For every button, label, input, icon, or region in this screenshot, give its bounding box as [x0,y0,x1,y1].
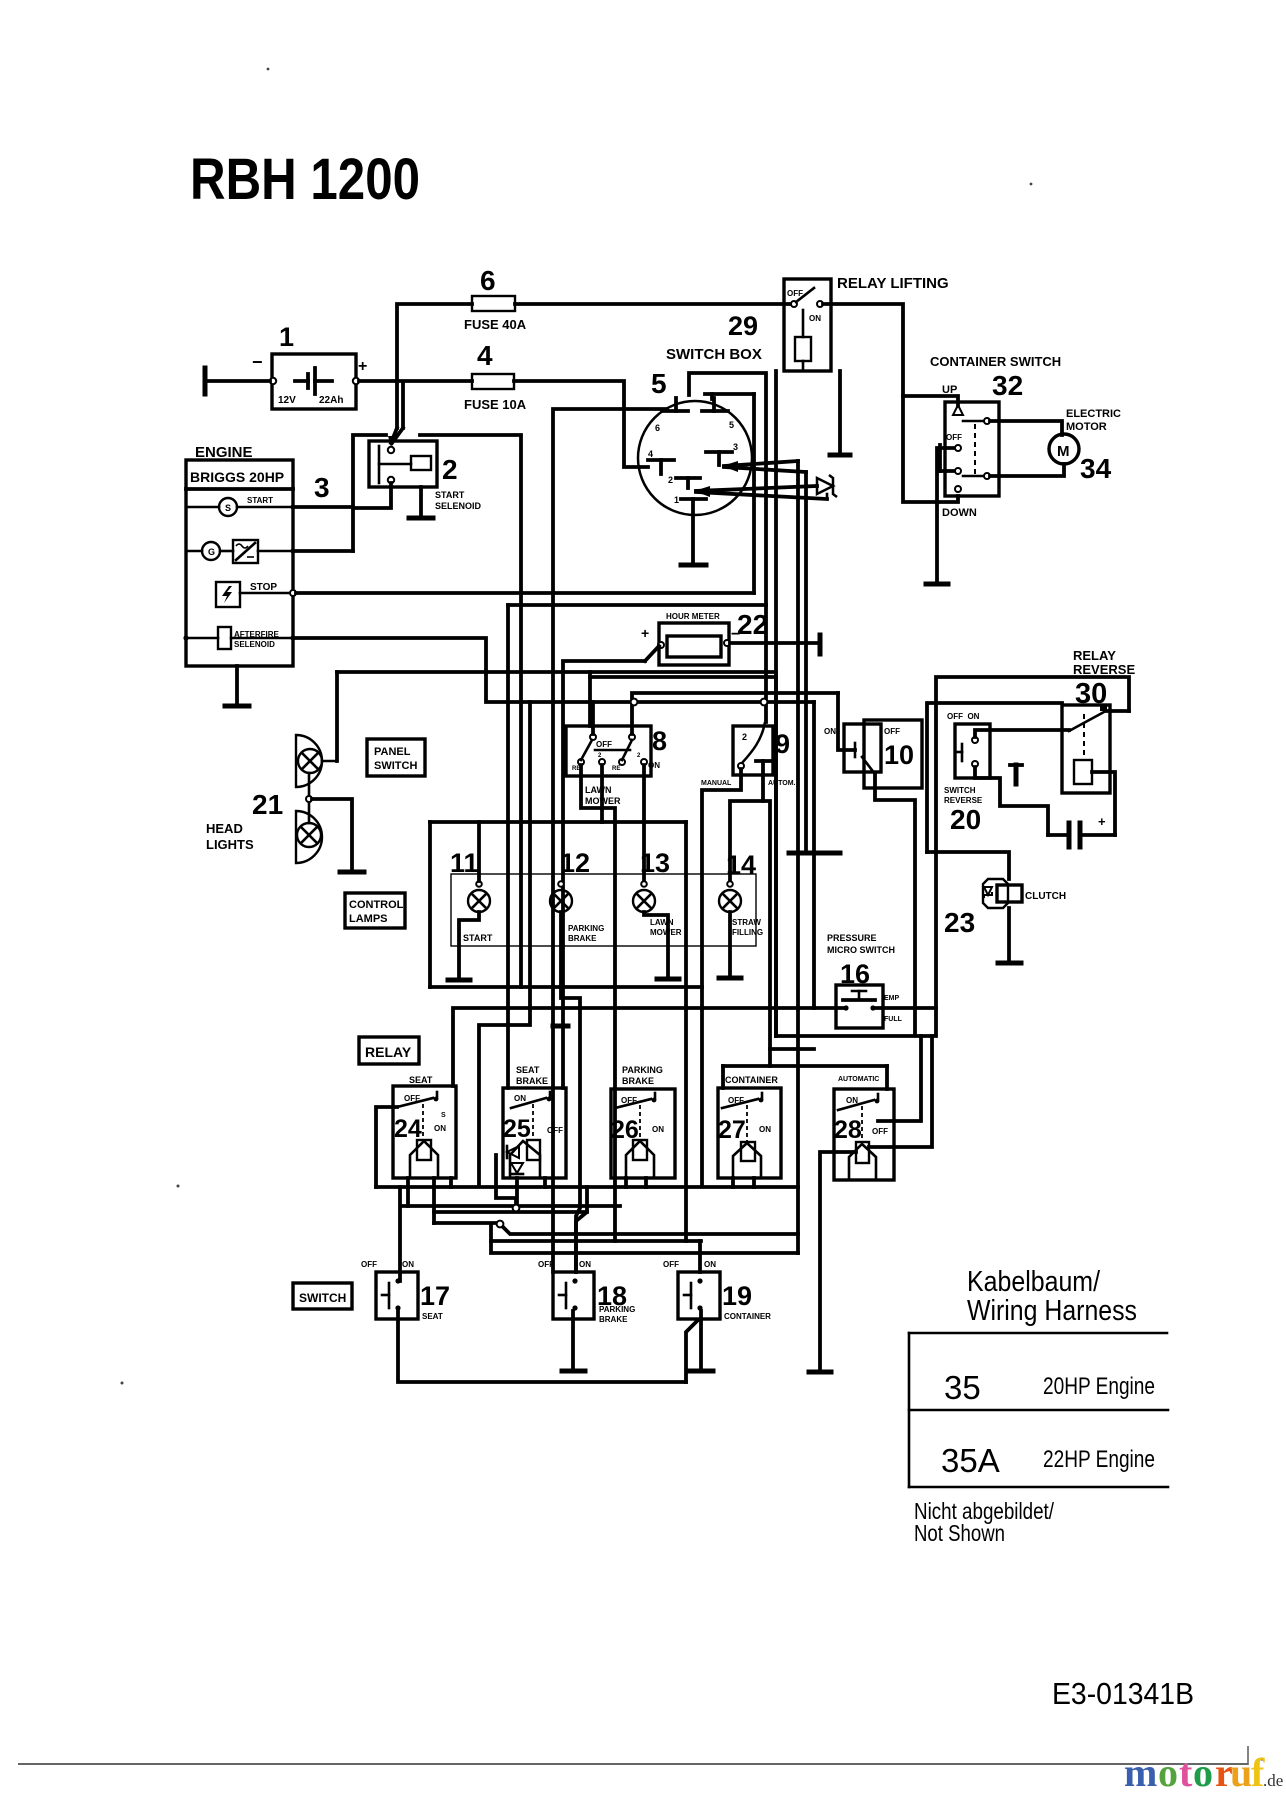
svg-text:17: 17 [420,1281,450,1311]
wire container DOWN to junction [937,496,958,502]
lamp 14 [719,881,741,912]
label LAWN MOWER [585,785,621,806]
ignition pin 1 [674,495,706,505]
svg-text:22: 22 [737,609,768,640]
wire chord return y605 [508,603,766,607]
wire lamp11 to ground [459,912,479,979]
svg-text:ON: ON [824,727,836,736]
svg-text:Not Shown: Not Shown [914,1520,1005,1546]
relay label box [359,1037,419,1064]
wire afterfire to bus B [293,638,814,702]
svg-text:16: 16 [840,959,870,989]
wire relay lifting to container switch [823,304,958,406]
ground under lamp13 [657,977,679,982]
svg-text:E3-01341B: E3-01341B [1052,1676,1194,1711]
svg-text:2: 2 [742,732,747,742]
wire switch17 ON feeder [398,1187,402,1281]
svg-text:6: 6 [480,265,496,296]
wire lamp11 box left leg [428,822,432,987]
svg-text:BRIGGS 20HP: BRIGGS 20HP [190,469,284,485]
svg-text:RELAY: RELAY [365,1044,412,1060]
head light lower 21 [296,811,322,863]
wire lamp11 feed [477,822,481,881]
svg-text:BRAKE: BRAKE [568,934,597,943]
svg-text:OFF: OFF [547,1126,563,1135]
bus y1253 [491,1226,798,1253]
ignition pin 6 [655,398,688,433]
svg-text:12: 12 [560,848,590,878]
svg-text:UP: UP [942,384,957,396]
engine generator terminal G [186,540,296,563]
svg-text:OFF: OFF [663,1260,679,1269]
wire relay24 right leg [432,1178,436,1223]
wire relay24 arm left out [376,1107,397,1187]
svg-text:S: S [441,1112,446,1119]
wire bus y1066 over relays [723,1064,887,1068]
switch 9 manual autom [733,722,773,775]
wire clutch to ground [1007,908,1011,962]
label OFF ON switch19 [663,1260,716,1269]
svg-text:OFF: OFF [946,433,962,442]
svg-text:START: START [463,933,493,943]
label PRESSURE MICRO SWITCH [827,933,895,955]
wire ignition upper chord to switch9 curve [689,373,766,722]
svg-text:SWITCH: SWITCH [944,786,976,795]
wire bus y1066 right drop [885,1066,889,1089]
svg-text:m: m [1124,1750,1157,1795]
engine afterfire solenoid [183,627,295,649]
wire switch19 diagonal to bottom bus [686,1320,698,1382]
ground under switch19 [690,1369,713,1374]
wire engine G to solenoid loop [293,549,353,553]
svg-text:M: M [1057,443,1070,460]
svg-text:ON: ON [514,1094,526,1103]
label PARKING BRAKE under lamp12 [568,924,604,943]
svg-text:PARKING: PARKING [622,1065,663,1075]
svg-text:o: o [1193,1750,1213,1795]
label SEAT BRAKE [516,1065,548,1086]
wire switch9 manual out [702,769,741,1186]
wire bus y1066 left drop [721,1066,725,1088]
bus y1212 [434,1210,587,1214]
wire battery negative lead [205,379,270,383]
battery negative terminal bar [203,368,208,394]
wire trunk x563 stem to relay25 [561,1026,565,1088]
wire line A drop to switch10 [838,693,855,750]
ground under relay lifting [830,453,850,458]
svg-text:2: 2 [668,475,673,485]
wire engine start to solenoid [293,505,353,509]
wire clutch feed [927,852,1009,879]
label START SOLENOID [435,490,482,511]
wire fuse6 left drop to solenoid [397,304,472,428]
wire trunk x686 [684,822,688,1241]
svg-text:11: 11 [450,848,479,878]
svg-text:4: 4 [648,449,653,459]
svg-text:14: 14 [726,850,756,880]
wire branch x530 to x479 [479,702,530,1186]
svg-text:STRAW: STRAW [732,918,761,927]
ignition pin 3 [706,442,738,465]
wire lamp12 down to switch18 [561,912,580,1272]
svg-text:OFF: OFF [872,1127,888,1136]
svg-text:o: o [1158,1750,1178,1795]
wire container OFF to ground trunk [935,448,939,583]
wire switch8 OFF up to bus B [591,702,595,734]
wire relay24 pentagon to bus [406,1178,410,1206]
switch reverse 20 [955,724,990,778]
wiring harness table [909,1333,1168,1487]
svg-text:ON: ON [579,1260,591,1269]
wire switch20 to relay30 arm [975,730,1069,737]
relay lifting 29 [784,279,831,371]
wire pressure left long to relay24 [453,1008,814,1086]
wire ignition top chord to stop junction [705,394,754,593]
ground under lamp11 [448,978,470,983]
wire trunk x508 [506,605,510,1088]
svg-text:FULL: FULL [884,1016,903,1023]
label LAWN MOWER under lamp13 [650,918,682,937]
pressure micro switch 16 [836,985,883,1028]
svg-text:25: 25 [503,1115,531,1143]
wire hour meter plus trunk [563,646,659,1024]
ignition pin 5 [702,398,734,430]
svg-text:13: 13 [640,848,670,878]
svg-text:LAMPS: LAMPS [349,913,388,925]
wire lamp14 to ground [728,912,732,977]
relay 26 parking brake [611,1089,675,1178]
capacitor [1048,823,1115,847]
svg-text:3: 3 [733,442,738,452]
label ELECTRIC MOTOR [1066,408,1121,433]
svg-text:OFF ON: OFF ON [947,712,980,721]
svg-text:Kabelbaum/: Kabelbaum/ [967,1266,1101,1298]
junction circle under relay25 [513,1205,520,1212]
switch label box [293,1283,352,1309]
svg-text:OFF: OFF [884,727,900,736]
svg-text:AUTOMATIC: AUTOMATIC [838,1076,879,1083]
svg-text:3: 3 [314,472,330,503]
svg-text:5: 5 [651,368,667,399]
svg-text:34: 34 [1080,453,1112,484]
wire relay27 legs [731,1178,735,1187]
svg-text:MOWER: MOWER [650,928,682,937]
label HEAD LIGHTS [206,821,254,852]
bus y1187 [376,1185,798,1189]
ground under solenoid [409,487,433,518]
wire switch8 RE to lawnmower trunk [581,765,615,1241]
start solenoid 2 [369,441,437,487]
relay 30 [1062,705,1110,793]
svg-text:RE: RE [612,766,620,772]
svg-text:CONTAINER SWITCH: CONTAINER SWITCH [930,354,1061,369]
svg-text:SEAT: SEAT [516,1065,540,1075]
label STRAW FILLING under lamp14 [732,918,763,937]
ignition pin 2 [668,475,700,488]
svg-text:.de: .de [1263,1771,1283,1790]
svg-text:27: 27 [718,1116,746,1144]
head light upper 21 [296,735,322,787]
svg-text:4: 4 [477,340,493,371]
footer rule [18,1763,1248,1765]
svg-text:START: START [247,496,273,505]
label OFF ON switch17 [361,1260,414,1269]
svg-text:SELENOID: SELENOID [234,640,275,649]
wire switch8 ON down to lamp13 [642,765,646,881]
svg-text:FILLING: FILLING [732,928,763,937]
bus y1223 [434,1221,500,1225]
wire headlights junction [306,773,352,871]
svg-text:RE: RE [572,766,580,772]
svg-text:6: 6 [655,423,660,433]
wire relay28 OFF feeder [878,1036,921,1121]
svg-text:SEAT: SEAT [422,1312,443,1321]
svg-text:2: 2 [442,454,458,485]
engine stop terminal [216,582,296,607]
wire fuse4 to ignition pin4 [514,381,648,467]
panel switch label box [367,739,425,776]
switch 19 container [678,1272,720,1319]
svg-text:CLUTCH: CLUTCH [1025,891,1066,902]
wire switch18 ON feeder [576,1187,587,1272]
wire capacitor to relay30 coil right [1092,772,1115,835]
svg-text:SEAT: SEAT [409,1075,433,1085]
svg-text:PARKING: PARKING [568,924,604,933]
speck right [1030,183,1033,186]
svg-text:CONTAINER: CONTAINER [725,1075,778,1085]
svg-text:ON: ON [809,314,821,323]
svg-text:35: 35 [944,1369,981,1406]
switch 8 lawn mower [566,726,660,776]
svg-text:35A: 35A [941,1442,1000,1479]
relay 25 seat brake [503,1088,566,1178]
engine start terminal S [186,496,296,516]
svg-text:PANEL: PANEL [374,746,411,758]
engine box [186,460,293,666]
bus y1234 with diagonal [503,1227,798,1234]
svg-text:+: + [641,625,649,641]
zener diode across pin2 wires [817,475,837,499]
wire solenoid loop left [353,435,386,551]
wire switch10 out [875,775,915,1035]
svg-text:20: 20 [950,804,981,835]
wire battery plus drop to solenoid [401,383,405,428]
junction circle on bus B right [761,699,768,706]
label Nicht abgebildet Not Shown [914,1498,1054,1546]
wire switch9 autom right jog down [763,801,770,1066]
footer dot [1260,1757,1263,1760]
label PARKING BRAKE [622,1065,663,1086]
wire trunk x806 from pin3 lower [804,472,808,853]
fuse F6 [472,296,515,311]
svg-text:22Ah: 22Ah [319,395,343,406]
wire hour meter minus to terminal bar [730,641,818,645]
wire relay25 pentagon left leg [496,1155,516,1205]
wire container to motor bottom [990,464,1064,476]
wire trunk x776 tail [774,677,778,1036]
hour meter 22 [641,623,740,665]
svg-text:BRAKE: BRAKE [516,1076,548,1086]
svg-text:26: 26 [611,1116,639,1144]
relay 27 container [718,1088,781,1178]
ground under clutch [998,961,1021,966]
wire bus y822 [430,820,686,824]
wire relay28 coil feeder [869,1036,932,1147]
switch 10 [824,720,922,788]
wire solenoid bottom terminal loop [353,483,391,508]
wire relay lifting right leg to ground [838,371,842,454]
svg-text:DOWN: DOWN [942,507,977,519]
svg-text:SWITCH: SWITCH [299,1291,346,1305]
wire y1049 link [770,1047,814,1051]
svg-text:ON: ON [759,1125,771,1134]
svg-text:8: 8 [652,726,667,756]
junction circle on bus y1223 [497,1221,504,1228]
relay bottom stubs [451,1178,754,1187]
svg-text:24: 24 [394,1115,422,1143]
svg-text:BRAKE: BRAKE [622,1076,654,1086]
wire relay28 coil left to ground trunk [820,1152,856,1371]
label PARKING BRAKE under 18 [599,1305,635,1324]
control lamps group box [451,874,756,946]
switch 17 seat [376,1272,418,1319]
wire relay lifting left leg down [774,371,778,1036]
svg-text:Wiring Harness: Wiring Harness [967,1295,1137,1327]
svg-text:t: t [1179,1750,1193,1795]
ground right bottom [809,1370,831,1375]
svg-text:+: + [1098,814,1106,829]
wire relay25 coil bottom leg [515,1178,519,1206]
battery 1 [252,352,367,409]
wire arrow into pin3 [722,461,806,472]
container switch left bracket [940,445,954,471]
bus y1206 [403,1204,620,1208]
svg-text:STOP: STOP [250,582,277,593]
ground under switch18 [562,1369,585,1374]
relay reverse outer box [927,677,1129,1008]
control lamps label box [345,893,405,928]
wire switch17 bottom to bus [398,1311,686,1382]
svg-text:32: 32 [992,370,1023,401]
svg-text:ON: ON [402,1260,414,1269]
speck left relays [177,1185,180,1188]
label RELAY REVERSE [1073,648,1135,677]
lamp 12 [550,881,572,912]
svg-text:RBH 1200: RBH 1200 [190,147,420,212]
wire relay lifting trunk to junction [903,396,937,502]
wire panel switch horizontal [337,670,776,674]
svg-text:G: G [208,547,215,557]
svg-text:CONTROL: CONTROL [349,899,404,911]
terminal bar below switch20 wire [1010,765,1022,784]
speck left bottom [121,1382,124,1385]
svg-text:ENGINE: ENGINE [195,444,253,461]
wire trunk x553 ignition pin6 [553,409,667,1272]
lamp 13 [633,881,655,912]
ignition pin 4 [648,449,674,474]
svg-text:MOTOR: MOTOR [1066,421,1107,433]
svg-text:5: 5 [729,420,734,430]
svg-text:RELAY: RELAY [1073,648,1116,663]
switch 18 parking brake [553,1272,594,1319]
svg-text:MANUAL: MANUAL [701,780,732,787]
svg-text:OFF: OFF [596,740,612,749]
svg-text:−: − [252,352,263,372]
svg-text:HOUR METER: HOUR METER [666,612,720,621]
wire fuse6 to relay lifting [515,302,792,306]
svg-text:FUSE 10A: FUSE 10A [464,397,527,412]
wire bus B drop to pressure switch [814,702,846,1008]
terminal bar on trunk x563 [553,1024,568,1029]
svg-text:REVERSE: REVERSE [1073,662,1135,677]
svg-text:1: 1 [674,495,679,505]
svg-text:RELAY LIFTING: RELAY LIFTING [837,275,949,292]
svg-text:OFF: OFF [538,1260,554,1269]
svg-text:ON: ON [652,1125,664,1134]
wire relay30 contact to outer box [1107,709,1129,713]
junction circle on bus B [631,699,638,706]
wire trunk x798 from pin3 upper [796,461,800,1253]
terminal bar right of hour meter [818,635,823,654]
svg-text:START: START [435,490,465,500]
svg-text:ON: ON [434,1124,446,1133]
svg-text:u: u [1230,1750,1252,1795]
electric motor 34 [1049,434,1079,464]
wire stop drop bus y677 [590,675,776,679]
svg-text:21: 21 [252,789,283,820]
svg-text:ON: ON [648,761,660,770]
wire pressure right to trunk x936 [873,1006,936,1010]
svg-text:SELENOID: SELENOID [435,501,482,511]
label Kabelbaum Wiring Harness [967,1266,1137,1327]
label SWITCH REVERSE [944,786,983,805]
svg-text:ELECTRIC: ELECTRIC [1066,408,1121,420]
wire solenoid top right to trunk [420,435,521,987]
svg-text:29: 29 [728,311,758,341]
ground under lamp14 [719,976,741,981]
arrow into solenoid terminal [388,428,403,447]
svg-text:12V: 12V [278,395,296,406]
wire bar y853 [789,851,840,856]
svg-text:19: 19 [722,1281,752,1311]
svg-text:LAWN: LAWN [650,918,674,927]
wire upper headlight to panel switch line [322,672,337,761]
svg-text:PARKING: PARKING [599,1305,635,1314]
wire battery plus to fuse 4 [359,379,472,383]
clutch 23 [983,879,1022,908]
svg-text:CONTAINER: CONTAINER [724,1312,771,1321]
wire panel line drop to switch8 [588,672,592,726]
svg-text:OFF: OFF [787,289,803,298]
wire bus y1036 [776,1008,936,1036]
wire switch8 terminal2 drop [600,765,604,822]
wire switch9 autom to lamp14 [730,775,763,881]
ignition switch 5 [638,401,752,515]
svg-text:22HP Engine: 22HP Engine [1043,1446,1155,1473]
lamp 11 [468,881,490,912]
svg-text:20HP Engine: 20HP Engine [1043,1373,1155,1400]
svg-text:10: 10 [884,740,914,770]
wire switch8 top right to line A [632,693,838,734]
svg-text:EMP: EMP [884,995,900,1002]
footer tick [1247,1746,1249,1765]
svg-text:BRAKE: BRAKE [599,1315,628,1324]
ignition ground [681,499,706,565]
motoruf logo [1124,1750,1283,1795]
wire container to motor top [990,421,1062,435]
wire switch18 to ground [571,1311,575,1370]
wire switch20 lower out to capacitor leg [975,767,1048,835]
